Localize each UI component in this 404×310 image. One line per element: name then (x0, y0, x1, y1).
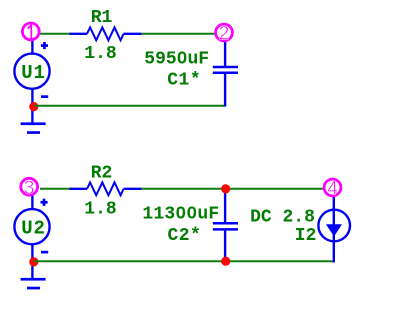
wire node1 to U1 (31, 40, 33, 54)
plus sign U1 (41, 42, 48, 49)
minus sign U1 (41, 95, 48, 98)
svg-text:3: 3 (24, 178, 35, 199)
svg-text:C1*: C1* (167, 71, 201, 91)
wire R2 to node4 (142, 188, 325, 190)
wire U2 to ground node (31, 244, 33, 278)
junction dot (C2 bottom) (221, 257, 230, 266)
wire node4 to I2 and through (333, 197, 335, 263)
bottom rail wire (bottom circuit) (34, 260, 333, 262)
ground (top circuit) (21, 122, 46, 133)
svg-text:2: 2 (219, 24, 230, 45)
wire C1 to bottom rail (224, 74, 226, 107)
resistor R2 (70, 182, 142, 195)
svg-text:U1: U1 (21, 62, 45, 84)
svg-text:R1: R1 (91, 8, 113, 28)
wire C2 to bottom rail (224, 231, 226, 262)
current source I2 (318, 210, 350, 242)
svg-text:5950uF: 5950uF (144, 49, 209, 69)
svg-text:I2: I2 (295, 226, 317, 246)
wire node2 to C1 (224, 42, 226, 66)
svg-text:4: 4 (327, 179, 338, 200)
node 2 (216, 24, 233, 41)
node 3 (21, 178, 38, 195)
junction dot (U2 minus node) (29, 257, 38, 266)
resistor R1 (70, 27, 142, 40)
bottom rail wire (top circuit) (34, 105, 225, 107)
svg-text:1.8: 1.8 (84, 44, 116, 64)
wire U1 to ground node (31, 89, 33, 123)
voltage source U1 (14, 54, 49, 89)
svg-text:1.8: 1.8 (84, 200, 116, 220)
junction dot (U1 minus node) (29, 102, 38, 111)
arrow of I2 (326, 224, 342, 236)
capacitor C1 (213, 67, 238, 73)
svg-text:DC 2.8: DC 2.8 (250, 208, 315, 228)
plus sign U2 (41, 199, 48, 206)
wire R1 to node2 (142, 33, 216, 35)
wire node1 to R1 (40, 33, 71, 35)
node 1 (22, 23, 39, 40)
node 4 (324, 179, 341, 196)
junction dot (C2 top) (221, 184, 230, 193)
minus sign U2 (41, 251, 48, 254)
wire node3 to R2 (40, 188, 71, 190)
wire top rail to C2 (224, 189, 226, 223)
capacitor C2 (213, 223, 238, 229)
ground (bottom circuit) (21, 278, 46, 290)
svg-text:U2: U2 (21, 217, 45, 239)
svg-text:C2*: C2* (167, 226, 201, 246)
voltage source U2 (14, 209, 49, 244)
svg-text:R2: R2 (91, 164, 113, 184)
svg-text:11300uF: 11300uF (142, 204, 219, 224)
wire node3 to U2 (31, 196, 33, 210)
